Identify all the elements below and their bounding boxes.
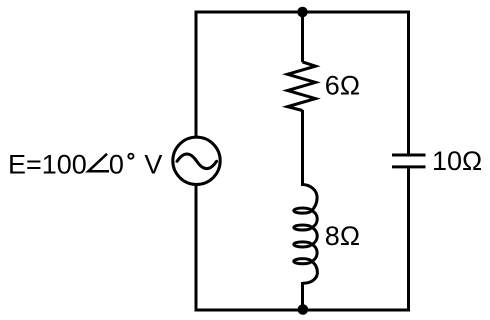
inductor L 8ohm (coil of 4 loops) <box>294 185 318 284</box>
wire: bottom rail right segment (bottom node to bottom-right corner) <box>303 170 409 310</box>
node: top junction dot <box>297 7 308 18</box>
resistor R 6ohm (zigzag) <box>288 62 316 111</box>
wire: left rail lower segment (source bottom to bottom-left corner) <box>196 186 303 310</box>
wire: top rail right segment (top node to top-right corner) <box>303 12 409 152</box>
capacitor C 10ohm (two plates) <box>392 155 426 167</box>
wire: middle branch bottom (inductor L to bottom node) <box>301 282 304 310</box>
svg-text:E=100: E=100 <box>8 149 87 179</box>
svg-text:10Ω: 10Ω <box>432 146 482 176</box>
svg-text:V: V <box>144 149 162 179</box>
wire: top rail left segment (top-left corner to top node) <box>196 12 303 136</box>
AC voltage source E (circle with sine) <box>173 137 220 184</box>
node: bottom junction dot <box>298 304 309 315</box>
wire: middle branch between resistor R and inductor L <box>301 110 304 186</box>
svg-text:8Ω: 8Ω <box>325 221 360 251</box>
svg-text:6Ω: 6Ω <box>325 71 360 101</box>
svg-text:0: 0 <box>109 149 124 179</box>
wire: middle branch top (top node to resistor R) <box>301 12 304 62</box>
label: source value E=100 angle 0 deg V <box>8 149 162 179</box>
